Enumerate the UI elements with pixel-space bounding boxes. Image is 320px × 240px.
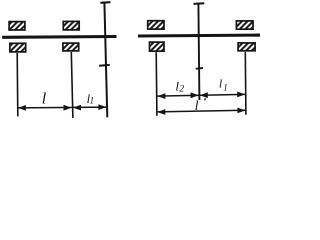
svg-text:l: l xyxy=(195,99,199,114)
svg-text:l: l xyxy=(42,91,47,108)
svg-text:1: 1 xyxy=(223,82,228,92)
svg-text:2: 2 xyxy=(179,84,184,94)
svg-text:1: 1 xyxy=(90,96,95,106)
